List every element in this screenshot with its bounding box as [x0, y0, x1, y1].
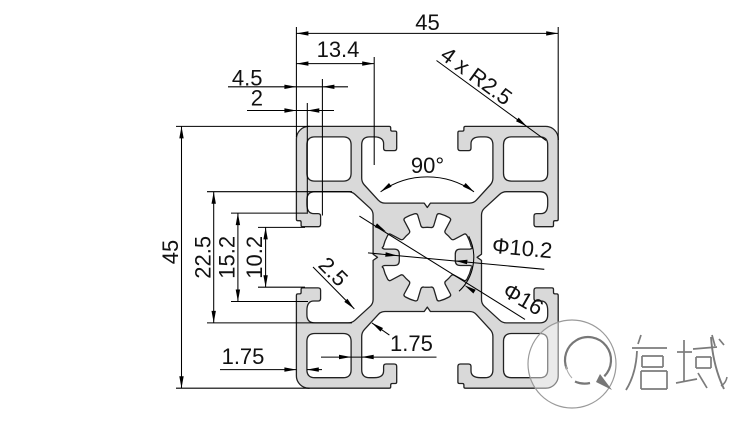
dim 90 deg: [381, 177, 474, 192]
svg-text:1.75: 1.75: [390, 331, 433, 356]
logo text yu: [683, 340, 685, 382]
dim 22.5: [207, 191, 352, 193]
dim 45 left: [176, 125, 310, 127]
dim 2.5: [313, 267, 354, 309]
svg-text:45: 45: [158, 240, 183, 264]
profile cross-section: [296, 126, 558, 388]
svg-text:2: 2: [251, 86, 263, 111]
dim 1.75 wall: [220, 369, 296, 371]
dim 15.2: [231, 212, 308, 214]
dim 2: [306, 103, 308, 213]
label 4 x R2.5: [437, 61, 547, 141]
svg-text:15.2: 15.2: [215, 236, 240, 279]
dim 13.4: [373, 57, 375, 165]
svg-text:45: 45: [415, 10, 439, 35]
dim phi 16: [459, 236, 474, 291]
logo watermark: [528, 320, 616, 408]
dim 45 top: [295, 27, 297, 137]
dim 10.2: [258, 226, 305, 228]
svg-text:13.4: 13.4: [317, 37, 360, 62]
svg-text:90°: 90°: [411, 153, 444, 178]
dim phi 10.2: [368, 253, 544, 269]
dim 4.5: [321, 79, 323, 216]
svg-text:10.2: 10.2: [242, 236, 267, 279]
svg-text:22.5: 22.5: [190, 236, 215, 279]
dim 1.75 web: [372, 323, 390, 335]
svg-text:1.75: 1.75: [222, 344, 265, 369]
logo text qi: [638, 335, 641, 344]
